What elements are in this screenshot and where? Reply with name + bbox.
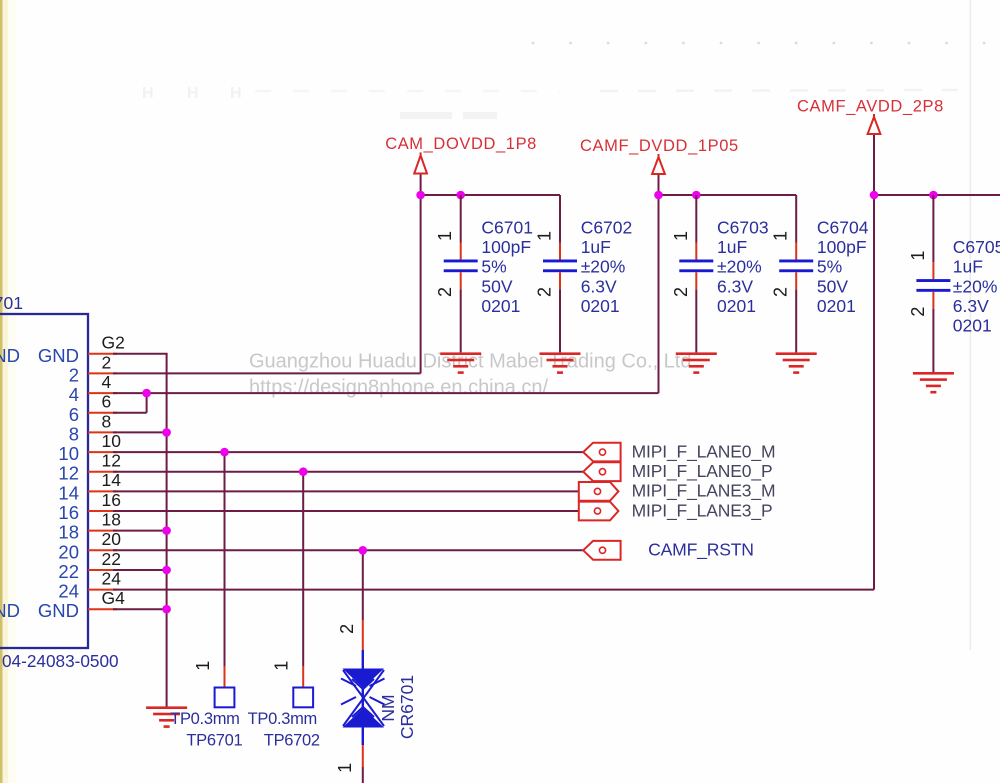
wire TP6701 vertical <box>224 452 226 687</box>
pin 20 number label <box>102 529 122 549</box>
net label CAMF_AVDD_2P8 <box>797 98 944 116</box>
ground below C6705 <box>913 372 954 394</box>
junction bus pin18 <box>162 526 171 535</box>
svg-text:20: 20 <box>102 529 122 549</box>
junction bus pin8 <box>162 428 171 437</box>
capacitor C6704 pin 1 <box>771 231 791 241</box>
svg-text:4: 4 <box>69 384 79 405</box>
svg-text:C6702: C6702 <box>581 218 633 238</box>
capacitor C6703 pin 2 <box>671 287 691 297</box>
capacitor C6702 value labels <box>581 218 633 316</box>
pin 4 stub <box>88 392 117 394</box>
svg-text:C6703: C6703 <box>717 218 769 238</box>
pin 8 number label <box>102 411 112 431</box>
svg-text:GND: GND <box>38 600 79 621</box>
svg-text:H: H <box>187 85 199 102</box>
pin 24 stub <box>88 589 117 591</box>
svg-text:1: 1 <box>908 251 928 261</box>
pin G4 number label <box>102 588 126 608</box>
svg-text:2: 2 <box>435 287 455 297</box>
wire pin8 to GND bus <box>113 431 168 433</box>
junction bus G4 <box>162 605 171 614</box>
svg-text:0201: 0201 <box>717 296 756 316</box>
svg-text:20: 20 <box>58 541 79 562</box>
pin name GND (left column, clipped) <box>0 345 20 366</box>
wire pin14 to MIPI_F_LANE3_M flag <box>113 490 579 492</box>
diode CR6701 NM label <box>378 694 398 721</box>
pin 18 number label <box>102 510 121 530</box>
wire pin6 stub right <box>113 412 147 414</box>
pin 16 stub <box>88 510 117 512</box>
pin name 20 <box>58 541 79 562</box>
power symbol CAMF_DVDD_1P05 arrow <box>652 154 665 195</box>
junction pin4/pin6 <box>142 389 151 398</box>
svg-text:G2: G2 <box>102 333 125 353</box>
svg-text:±20%: ±20% <box>953 276 998 296</box>
ground below C6703 <box>676 352 717 374</box>
wire CAMF_DVDD vertical drop <box>658 195 660 393</box>
svg-text:CR6701: CR6701 <box>397 675 417 739</box>
svg-text:5%: 5% <box>481 257 506 277</box>
svg-text:14: 14 <box>102 470 122 490</box>
svg-text:2: 2 <box>69 364 79 385</box>
pin 4 number label <box>102 372 112 392</box>
svg-text:GND: GND <box>0 345 20 366</box>
capacitor C6703 pin 1 <box>671 231 691 241</box>
diode CR6701 pin 1 <box>335 763 355 773</box>
svg-text:GND: GND <box>38 345 79 366</box>
faint ghost watermark line <box>255 90 958 91</box>
svg-text:1: 1 <box>272 661 292 671</box>
junction C6705 rail <box>929 191 938 200</box>
svg-text:22: 22 <box>102 549 121 569</box>
svg-text:1: 1 <box>771 231 791 241</box>
net name MIPI_F_LANE0_M <box>632 441 776 462</box>
pin name 4 <box>69 384 79 405</box>
svg-text:6.3V: 6.3V <box>717 276 753 296</box>
wire G2 to GND bus <box>113 353 168 355</box>
pin 18 stub <box>88 530 117 532</box>
pin 2 number label <box>102 352 112 372</box>
svg-text:C6705: C6705 <box>953 237 1000 257</box>
power symbol CAM_DOVDD_1P8 arrow <box>414 152 427 195</box>
svg-text:8: 8 <box>102 411 112 431</box>
watermark line 2 <box>249 377 549 399</box>
svg-text:100pF: 100pF <box>817 237 867 257</box>
pin name 8 <box>69 423 79 444</box>
svg-text:1: 1 <box>671 231 691 241</box>
faint ghost rects <box>400 112 497 119</box>
power rail CAM_DOVDD_1P8 <box>421 194 560 196</box>
pin 10 number label <box>102 431 122 451</box>
wire GND bus vertical <box>166 354 168 707</box>
diode CR6701 pin 2 <box>337 624 357 634</box>
svg-text:C6701: C6701 <box>481 218 533 238</box>
capacitor C6701 pin 2 <box>435 287 455 297</box>
junction CR6701 tap <box>359 546 368 555</box>
pin name 24 <box>58 581 79 602</box>
svg-text:6: 6 <box>69 404 79 425</box>
svg-text:GND: GND <box>0 600 20 621</box>
svg-text:1uF: 1uF <box>953 257 983 277</box>
test point TP6702 value TP0.3mm <box>248 710 317 728</box>
net name MIPI_F_LANE3_P <box>632 500 773 521</box>
test point TP6701 refdes <box>186 732 242 750</box>
pin G2 number label <box>102 333 125 353</box>
pin name 12 <box>58 463 79 484</box>
svg-text:24: 24 <box>102 569 122 589</box>
svg-text:6.3V: 6.3V <box>953 296 989 316</box>
wire CAMF_AVDD vertical drop <box>873 195 875 590</box>
svg-text:MIPI_F_LANE0_M: MIPI_F_LANE0_M <box>632 441 776 462</box>
svg-text:2: 2 <box>671 287 691 297</box>
svg-text:24: 24 <box>58 581 79 602</box>
ground GND bus <box>146 706 187 727</box>
pin 22 stub <box>88 569 117 571</box>
junction C6703 rail <box>692 191 701 200</box>
svg-text:18: 18 <box>58 522 79 543</box>
wire pin18 to GND bus <box>113 530 168 532</box>
capacitor C6704 <box>779 195 813 352</box>
svg-text:TP6701: TP6701 <box>186 732 242 750</box>
svg-text:CAMF_AVDD_2P8: CAMF_AVDD_2P8 <box>797 98 944 116</box>
pin 24 number label <box>102 569 122 589</box>
test point TP6702 refdes <box>264 732 320 750</box>
pin name GND (left column, clipped) <box>0 600 20 621</box>
faint dotted grid line top <box>532 42 986 45</box>
off-page flag MIPI_F_LANE0_M <box>583 443 620 462</box>
svg-text:16: 16 <box>58 502 79 523</box>
svg-text:50V: 50V <box>481 276 512 296</box>
junction C6701 rail <box>456 191 465 200</box>
svg-text:10: 10 <box>102 431 122 451</box>
svg-text:8: 8 <box>69 423 79 444</box>
capacitor C6705 pin 2 <box>908 307 928 317</box>
capacitor C6701 pin 1 <box>435 231 455 241</box>
capacitor C6704 pin 2 <box>771 287 791 297</box>
connector CN6701 box <box>0 314 88 648</box>
svg-text:100pF: 100pF <box>481 237 531 257</box>
svg-text:4: 4 <box>102 372 112 392</box>
pin name 22 <box>58 561 79 582</box>
test point TP6701 square <box>215 688 235 708</box>
net name CAMF_RSTN <box>648 540 754 561</box>
connector refdes CN6701 <box>0 293 23 313</box>
svg-text:6: 6 <box>102 392 112 412</box>
ground below C6702 <box>540 352 581 374</box>
pin 14 number label <box>102 470 122 490</box>
pin G4 stub <box>88 608 117 610</box>
power rail CAMF_AVDD_2P8 <box>874 194 1000 196</box>
net label CAMF_DVDD_1P05 <box>580 137 739 155</box>
svg-text:2: 2 <box>771 287 791 297</box>
pin 12 number label <box>102 451 121 471</box>
junction bus pin22 <box>162 566 171 575</box>
svg-text:1: 1 <box>435 231 455 241</box>
svg-text:±20%: ±20% <box>717 257 762 277</box>
diode CR6701 refdes <box>397 675 417 739</box>
pin G2 stub <box>88 353 117 355</box>
svg-text:https://design8phone.en.china.: https://design8phone.en.china.cn/ <box>249 377 549 399</box>
svg-text:22: 22 <box>58 561 79 582</box>
svg-text:1: 1 <box>193 661 213 671</box>
off-page flag CAMF_RSTN <box>583 541 620 560</box>
ground below C6701 <box>440 352 481 374</box>
wire pin2 to CAM_DOVDD drop <box>113 372 421 374</box>
junction DOVDD rail <box>416 191 425 200</box>
junction TP6702 tap <box>299 467 308 476</box>
svg-text:12: 12 <box>58 463 79 484</box>
svg-text:5%: 5% <box>817 257 842 277</box>
capacitor C6703 <box>679 195 713 352</box>
pin name 10 <box>58 443 79 464</box>
wire CR6701 vertical top <box>362 550 364 650</box>
svg-text:16: 16 <box>102 490 121 510</box>
pin 22 number label <box>102 549 121 569</box>
wire pin10 to MIPI_F_LANE0_M flag <box>113 451 583 453</box>
capacitor C6703 value labels <box>717 218 769 316</box>
capacitor C6705 <box>916 195 950 372</box>
wire pin6 up to pin4 <box>146 393 148 413</box>
svg-text:12: 12 <box>102 451 121 471</box>
svg-text:MIPI_F_LANE3_M: MIPI_F_LANE3_M <box>632 481 776 502</box>
power symbol CAMF_AVDD_2P8 arrow <box>868 114 881 195</box>
svg-text:TP0.3mm: TP0.3mm <box>248 710 317 728</box>
svg-text:CAMF_DVDD_1P05: CAMF_DVDD_1P05 <box>580 137 739 155</box>
svg-text:±20%: ±20% <box>581 257 626 277</box>
faint watermark ghost marks <box>142 85 242 102</box>
diode CR6701 (TVS, not mounted) <box>341 650 385 783</box>
svg-text:CAM_DOVDD_1P8: CAM_DOVDD_1P8 <box>385 135 537 153</box>
pin name GND <box>38 600 79 621</box>
svg-text:H: H <box>230 85 242 102</box>
ground below C6704 <box>776 352 817 374</box>
capacitor C6702 pin 1 <box>535 231 555 241</box>
svg-text:14: 14 <box>58 482 79 503</box>
page left gold border strip <box>0 0 16 783</box>
pin 16 number label <box>102 490 121 510</box>
wire G4 to GND bus <box>113 608 168 610</box>
wire pin16 to MIPI_F_LANE3_P flag <box>113 510 579 512</box>
net name MIPI_F_LANE0_P <box>632 461 773 482</box>
svg-text:CN6701: CN6701 <box>0 293 23 313</box>
svg-text:C6704: C6704 <box>817 218 869 238</box>
svg-text:0201: 0201 <box>953 316 992 336</box>
connector part number 04-24083-0500 <box>2 651 119 671</box>
junction TP6701 tap <box>220 448 229 457</box>
svg-text:G4: G4 <box>102 588 126 608</box>
svg-text:NM: NM <box>378 694 398 721</box>
svg-text:2: 2 <box>337 624 357 634</box>
test point TP6702 pin 1 <box>272 661 292 671</box>
svg-text:H: H <box>142 85 154 102</box>
capacitor C6702 <box>543 195 577 352</box>
wire pin4 to CAMF_DVDD drop <box>113 392 659 394</box>
capacitor C6701 value labels <box>481 218 533 316</box>
svg-text:0201: 0201 <box>581 296 620 316</box>
svg-text:6.3V: 6.3V <box>581 276 617 296</box>
pin 10 stub <box>88 451 117 453</box>
svg-text:50V: 50V <box>817 276 848 296</box>
wire pin12 to MIPI_F_LANE0_P flag <box>113 471 583 473</box>
junction AVDD rail <box>870 191 879 200</box>
svg-text:TP0.3mm: TP0.3mm <box>170 710 239 728</box>
svg-text:0201: 0201 <box>481 296 520 316</box>
svg-text:04-24083-0500: 04-24083-0500 <box>2 651 119 671</box>
capacitor C6701 <box>444 195 478 352</box>
junction DVDD rail <box>654 191 663 200</box>
capacitor C6704 value labels <box>817 218 869 316</box>
wire pin22 to GND bus <box>113 569 168 571</box>
wire pin20 to CAMF_RSTN flag <box>113 549 583 551</box>
pin name 6 <box>69 404 79 425</box>
wire TP6702 vertical <box>302 472 304 688</box>
test point TP6701 value TP0.3mm <box>170 710 239 728</box>
svg-text:1: 1 <box>535 231 555 241</box>
pin name 18 <box>58 522 79 543</box>
test point TP6701 pin 1 <box>193 661 213 671</box>
off-page flag MIPI_F_LANE3_M <box>579 482 619 501</box>
pin 6 stub <box>88 412 117 414</box>
svg-text:10: 10 <box>58 443 79 464</box>
net name MIPI_F_LANE3_M <box>632 481 776 502</box>
svg-text:CAMF_RSTN: CAMF_RSTN <box>648 540 754 561</box>
wire CAM_DOVDD vertical drop <box>420 195 422 373</box>
svg-text:MIPI_F_LANE0_P: MIPI_F_LANE0_P <box>632 461 773 482</box>
capacitor C6702 pin 2 <box>535 287 555 297</box>
pin 8 stub <box>88 431 117 433</box>
svg-text:1uF: 1uF <box>581 237 611 257</box>
svg-text:2: 2 <box>908 307 928 317</box>
svg-text:TP6702: TP6702 <box>264 732 320 750</box>
capacitor C6705 value labels <box>953 237 1000 335</box>
svg-text:18: 18 <box>102 510 121 530</box>
off-page flag MIPI_F_LANE3_P <box>579 502 619 521</box>
pin name 2 <box>69 364 79 385</box>
power rail CAMF_DVDD_1P05 <box>659 194 797 196</box>
test point TP6702 square <box>293 688 313 708</box>
faint page edge line right <box>970 0 972 650</box>
svg-text:0201: 0201 <box>817 296 856 316</box>
watermark line 1 <box>249 351 697 373</box>
net label CAM_DOVDD_1P8 <box>385 135 537 153</box>
pin 6 number label <box>102 392 112 412</box>
pin name GND <box>38 345 79 366</box>
svg-text:2: 2 <box>102 352 112 372</box>
pin 12 stub <box>88 471 117 473</box>
pin name 16 <box>58 502 79 523</box>
svg-text:2: 2 <box>535 287 555 297</box>
svg-text:1uF: 1uF <box>717 237 747 257</box>
pin 2 stub <box>88 372 117 374</box>
pin 20 stub <box>88 549 117 551</box>
svg-text:MIPI_F_LANE3_P: MIPI_F_LANE3_P <box>632 500 773 521</box>
pin 14 stub <box>88 490 117 492</box>
capacitor C6705 pin 1 <box>908 251 928 261</box>
svg-text:1: 1 <box>335 763 355 773</box>
off-page flag MIPI_F_LANE0_P <box>583 462 620 481</box>
wire pin24 to CAMF_AVDD drop <box>113 589 874 591</box>
pin name 14 <box>58 482 79 503</box>
